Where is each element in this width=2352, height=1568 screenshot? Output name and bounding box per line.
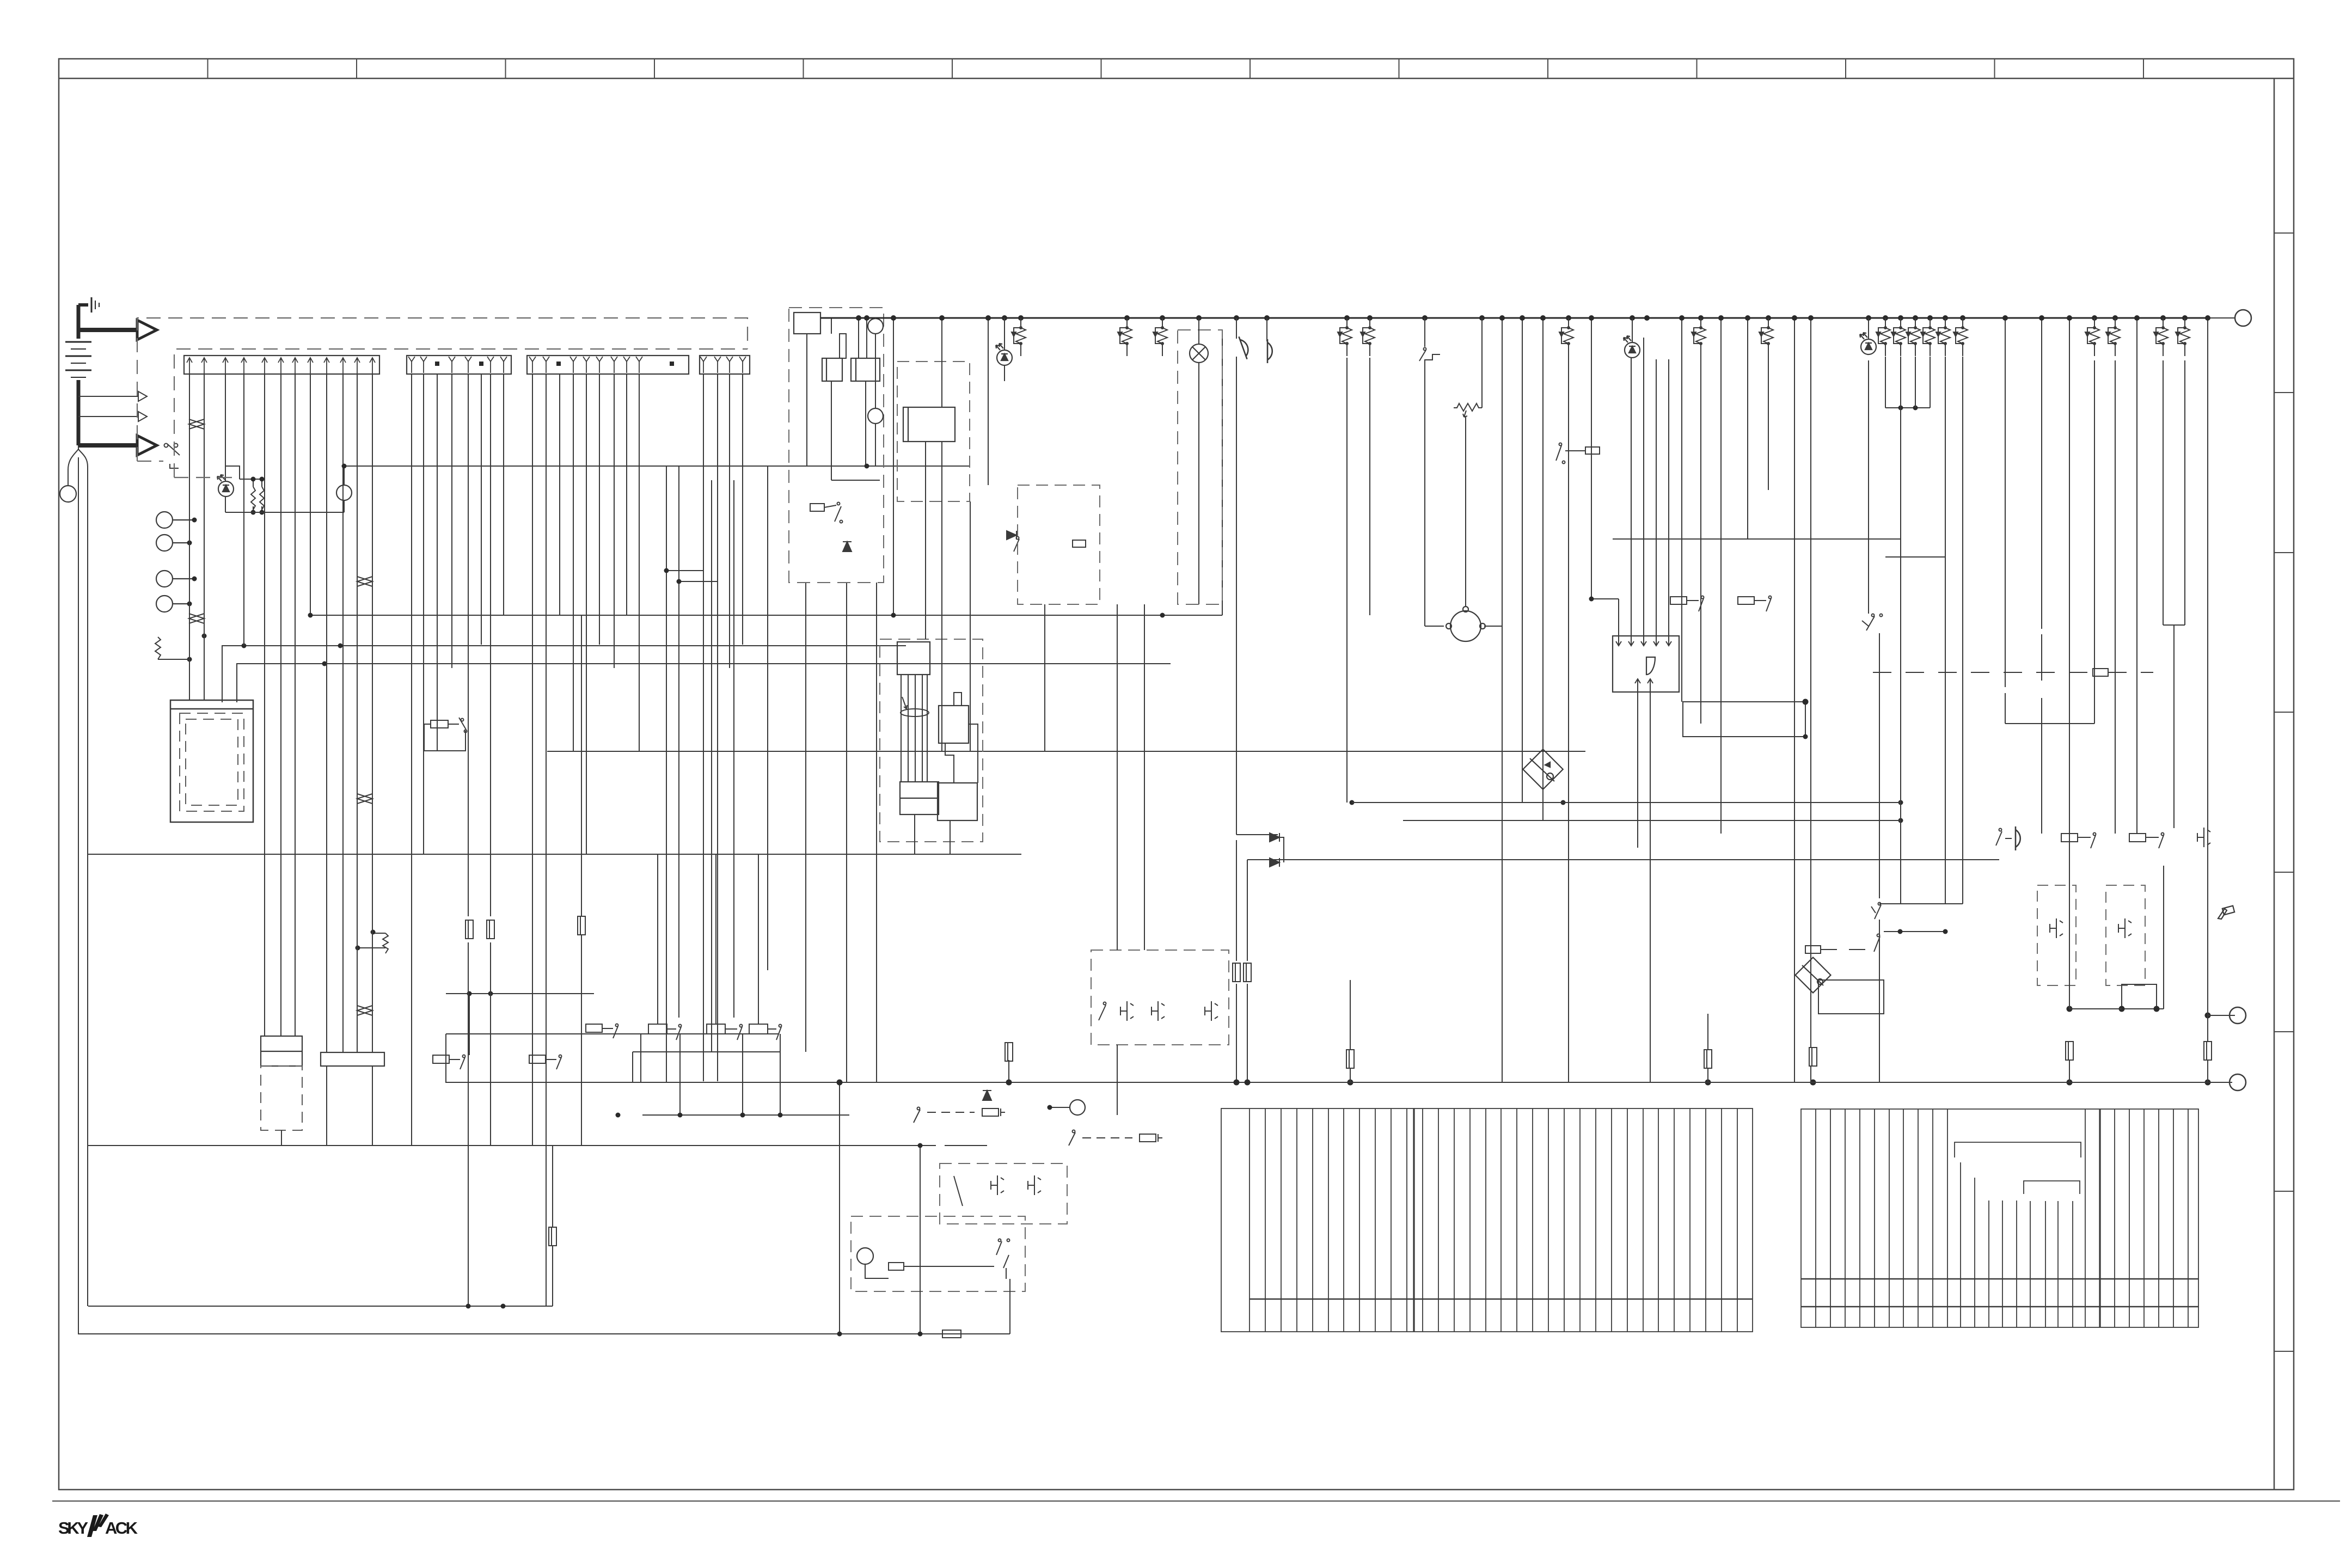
battery BAT1: [65, 305, 91, 445]
key switch module U3: [903, 407, 955, 442]
relay K27 with contact: [1670, 596, 1704, 612]
ground terminal ring circle: [2229, 1074, 2246, 1091]
chassis ground symbol: [78, 297, 99, 313]
LED CR4: [217, 475, 234, 497]
diode D5: [1270, 858, 1279, 867]
pump contactor loop with relays K32 K33: [433, 994, 641, 1082]
resistor R3: [358, 933, 388, 953]
toggle TS-H: [2118, 918, 2131, 938]
relay K34 with contact: [1738, 596, 1772, 612]
header cell dividers: [208, 59, 2144, 78]
toggle TS-E: [1028, 1175, 1041, 1195]
link bars at junction: [2069, 984, 2157, 1009]
fuse F11: [1809, 1048, 1817, 1066]
fuse F10: [1704, 1050, 1712, 1068]
alarm plug connector (diamond): [1523, 749, 1563, 789]
lamp circle L2: [336, 485, 352, 500]
toggle TS-A: [1120, 1001, 1134, 1021]
switch lever S4: [954, 1176, 963, 1206]
relay K30 with contact: [2061, 833, 2096, 849]
sense tap arrow A2: [78, 391, 147, 401]
diode D2: [1007, 531, 1016, 540]
down-drop contactor assembly C3: [261, 1036, 302, 1066]
junction box U11: [1818, 980, 1884, 1014]
toggle TS-G: [2050, 918, 2063, 938]
gauge circle G3: [1070, 1100, 1085, 1115]
junction dots on long rails: [308, 464, 1808, 1337]
bottom separator line: [52, 1500, 2340, 1502]
fuse F7: [1233, 963, 1240, 982]
sense tap arrow A3: [78, 412, 147, 421]
beacon lamp L1: [1190, 344, 1208, 363]
fuse F5: [1005, 1043, 1013, 1061]
fuse F13: [2204, 1042, 2212, 1060]
wire-number bracket lower: [2024, 1181, 2080, 1194]
battery charger box U9: [170, 700, 253, 822]
alarm horn H3 with switch: [1996, 829, 2012, 846]
main +V bus B+: [820, 317, 2209, 319]
contactor coil C2: [851, 358, 880, 381]
connector block J1: [184, 356, 379, 374]
dashed enclosure (drive select): [940, 1163, 1067, 1224]
dashed enclosure (pump contactor box): [789, 308, 884, 583]
dashed link with coil K28: [1873, 669, 2153, 676]
lower terminal ring circle: [2229, 1007, 2246, 1024]
interlock loop rectangle: [1683, 702, 1805, 737]
twisted pair T1: [189, 419, 204, 429]
dashed enclosure (joystick R): [2106, 885, 2145, 985]
fuse F4: [549, 1227, 556, 1246]
aux contact block: [840, 334, 846, 358]
relay coil K7: [1692, 318, 1706, 356]
fuse F2: [487, 920, 494, 939]
charger feed corner wires: [222, 646, 1171, 702]
relay K20 with diode and contact: [1014, 537, 1086, 552]
ECU mid box U5: [939, 706, 969, 743]
toggle TS-C: [1205, 1001, 1218, 1021]
limit switch LS1 with coil: [810, 503, 843, 523]
relay coil K4: [1338, 318, 1352, 356]
flasher symbol: [2218, 906, 2234, 919]
gauge circle G4: [857, 1248, 873, 1264]
wire-number bracket upper: [1955, 1142, 2081, 1157]
relay coil K6: [1559, 318, 1573, 356]
pressure switch PS1: [1419, 318, 1440, 363]
relay coil K5: [1361, 318, 1375, 356]
positive feed arrow A1: [78, 320, 157, 340]
fuse F12: [2066, 1042, 2073, 1060]
dashed enclosure (charger interlock): [851, 1216, 1025, 1291]
dashed link with coil K29: [1805, 866, 2164, 1009]
twisted pair T2: [189, 614, 204, 623]
battery negative return wires: [68, 445, 88, 1334]
connector block J3: [527, 356, 689, 374]
fuse F9: [1346, 1050, 1354, 1068]
right border zone ticks: [2274, 233, 2294, 1351]
resistor R1 pair with dots: [225, 466, 264, 512]
rheostat R-throttle: [1454, 318, 1482, 606]
negative feed arrow A4 with disconnect switch: [78, 436, 157, 455]
horn H2: [1267, 339, 1272, 363]
wire maze: horizontal runs: [78, 466, 2235, 1334]
svg-text:ACK: ACK: [105, 1518, 138, 1538]
dashed module boundary (platform control box): [137, 318, 748, 477]
dashed enclosure (tilt module): [1018, 485, 1100, 604]
wire maze: vertical runs: [189, 318, 2208, 1334]
pothole guard circle P0: [60, 486, 76, 502]
horn H1: [1239, 335, 1251, 359]
toggle TS-F: [2197, 828, 2210, 847]
pothole switch circles PH1-PH4: [156, 512, 194, 612]
terminal grid block TS2: [1801, 1109, 2198, 1327]
twisted pair T3: [357, 577, 372, 586]
switch S2 with relay K25: [1069, 1130, 1162, 1146]
toggle TS-B: [1151, 1001, 1165, 1021]
terminal grid block TS1: [1221, 1108, 1753, 1332]
dashed enclosure (ground control station): [1091, 950, 1229, 1045]
relay K31 with contact: [2129, 833, 2164, 849]
fuse F1: [465, 920, 473, 939]
dashed enclosure (beacon): [1178, 330, 1222, 604]
twisted pair T4: [357, 794, 372, 804]
fuse F6: [942, 1330, 961, 1338]
bus junction dots: [856, 315, 2210, 321]
level switch S6: [1862, 614, 1883, 631]
bus terminal ring: [2235, 310, 2251, 326]
resistor R2: [155, 637, 189, 659]
LED CR3: [1860, 333, 1876, 354]
relay coil pair K15,K16: [2085, 318, 2099, 356]
wire bundle center risers: [666, 330, 1222, 1082]
right inner border: [2274, 78, 2275, 1490]
hour meter G1: [868, 318, 883, 334]
alarm plug connector 2 (diamond): [1795, 957, 1830, 993]
LED CR2: [1624, 336, 1640, 358]
ECU module cluster dashed enclosure: [880, 639, 983, 842]
platform interface plate: [321, 1052, 384, 1066]
fuse F3: [578, 916, 585, 935]
ECU ribbon wires: [901, 675, 929, 782]
hour meter G2: [868, 408, 883, 424]
relay K26: [865, 1239, 1010, 1279]
toggle TS-D: [991, 1175, 1004, 1195]
fuse F8: [1244, 963, 1251, 982]
ECU low box U6: [900, 782, 939, 814]
LED CR1: [996, 344, 1012, 365]
key cluster wires: [807, 318, 988, 751]
relay coil K2: [1118, 318, 1132, 356]
ECU low box U7: [938, 783, 977, 820]
diode D4: [1270, 833, 1279, 842]
svg-text:SKY: SKY: [58, 1518, 88, 1538]
twisted pair T5: [357, 1006, 372, 1015]
ECU top box U4: [897, 642, 930, 675]
ECU interconnect wires: [915, 693, 978, 842]
diode D3: [983, 1091, 991, 1100]
relay coil K1: [1012, 318, 1026, 356]
SKYJACK logo: [58, 1514, 138, 1538]
switch S5 with coil box: [1556, 443, 1600, 464]
diode D1: [843, 542, 852, 552]
dashed enclosure (joystick L): [2037, 885, 2076, 985]
relay coil K8: [1759, 318, 1773, 356]
switch S7: [1871, 903, 1881, 920]
relay coil bank K9-K14: [1876, 318, 1890, 356]
relay coil K3: [1153, 318, 1167, 356]
lever switch S3: [1099, 1002, 1106, 1021]
relay K19 with contact: [424, 718, 467, 751]
connector block J4: [700, 356, 750, 374]
brake release switch S1 with relay K24 and diodes: [914, 1107, 1005, 1123]
battery disconnect switch S0: [164, 444, 180, 469]
drive motor M1: [1446, 607, 1485, 641]
header strip bottom line: [59, 78, 2294, 79]
relay coil pair K17,K18: [2154, 318, 2168, 356]
contactor coil C1: [822, 358, 842, 381]
tilt sensor module U10: [1613, 636, 1679, 692]
power relay module box U2: [794, 313, 820, 334]
relay row K21 K22 K23: [648, 1024, 782, 1040]
wire bends and drops: [281, 571, 950, 1146]
dashed enclosure (key switch): [897, 362, 970, 501]
connector block J2: [407, 356, 511, 374]
